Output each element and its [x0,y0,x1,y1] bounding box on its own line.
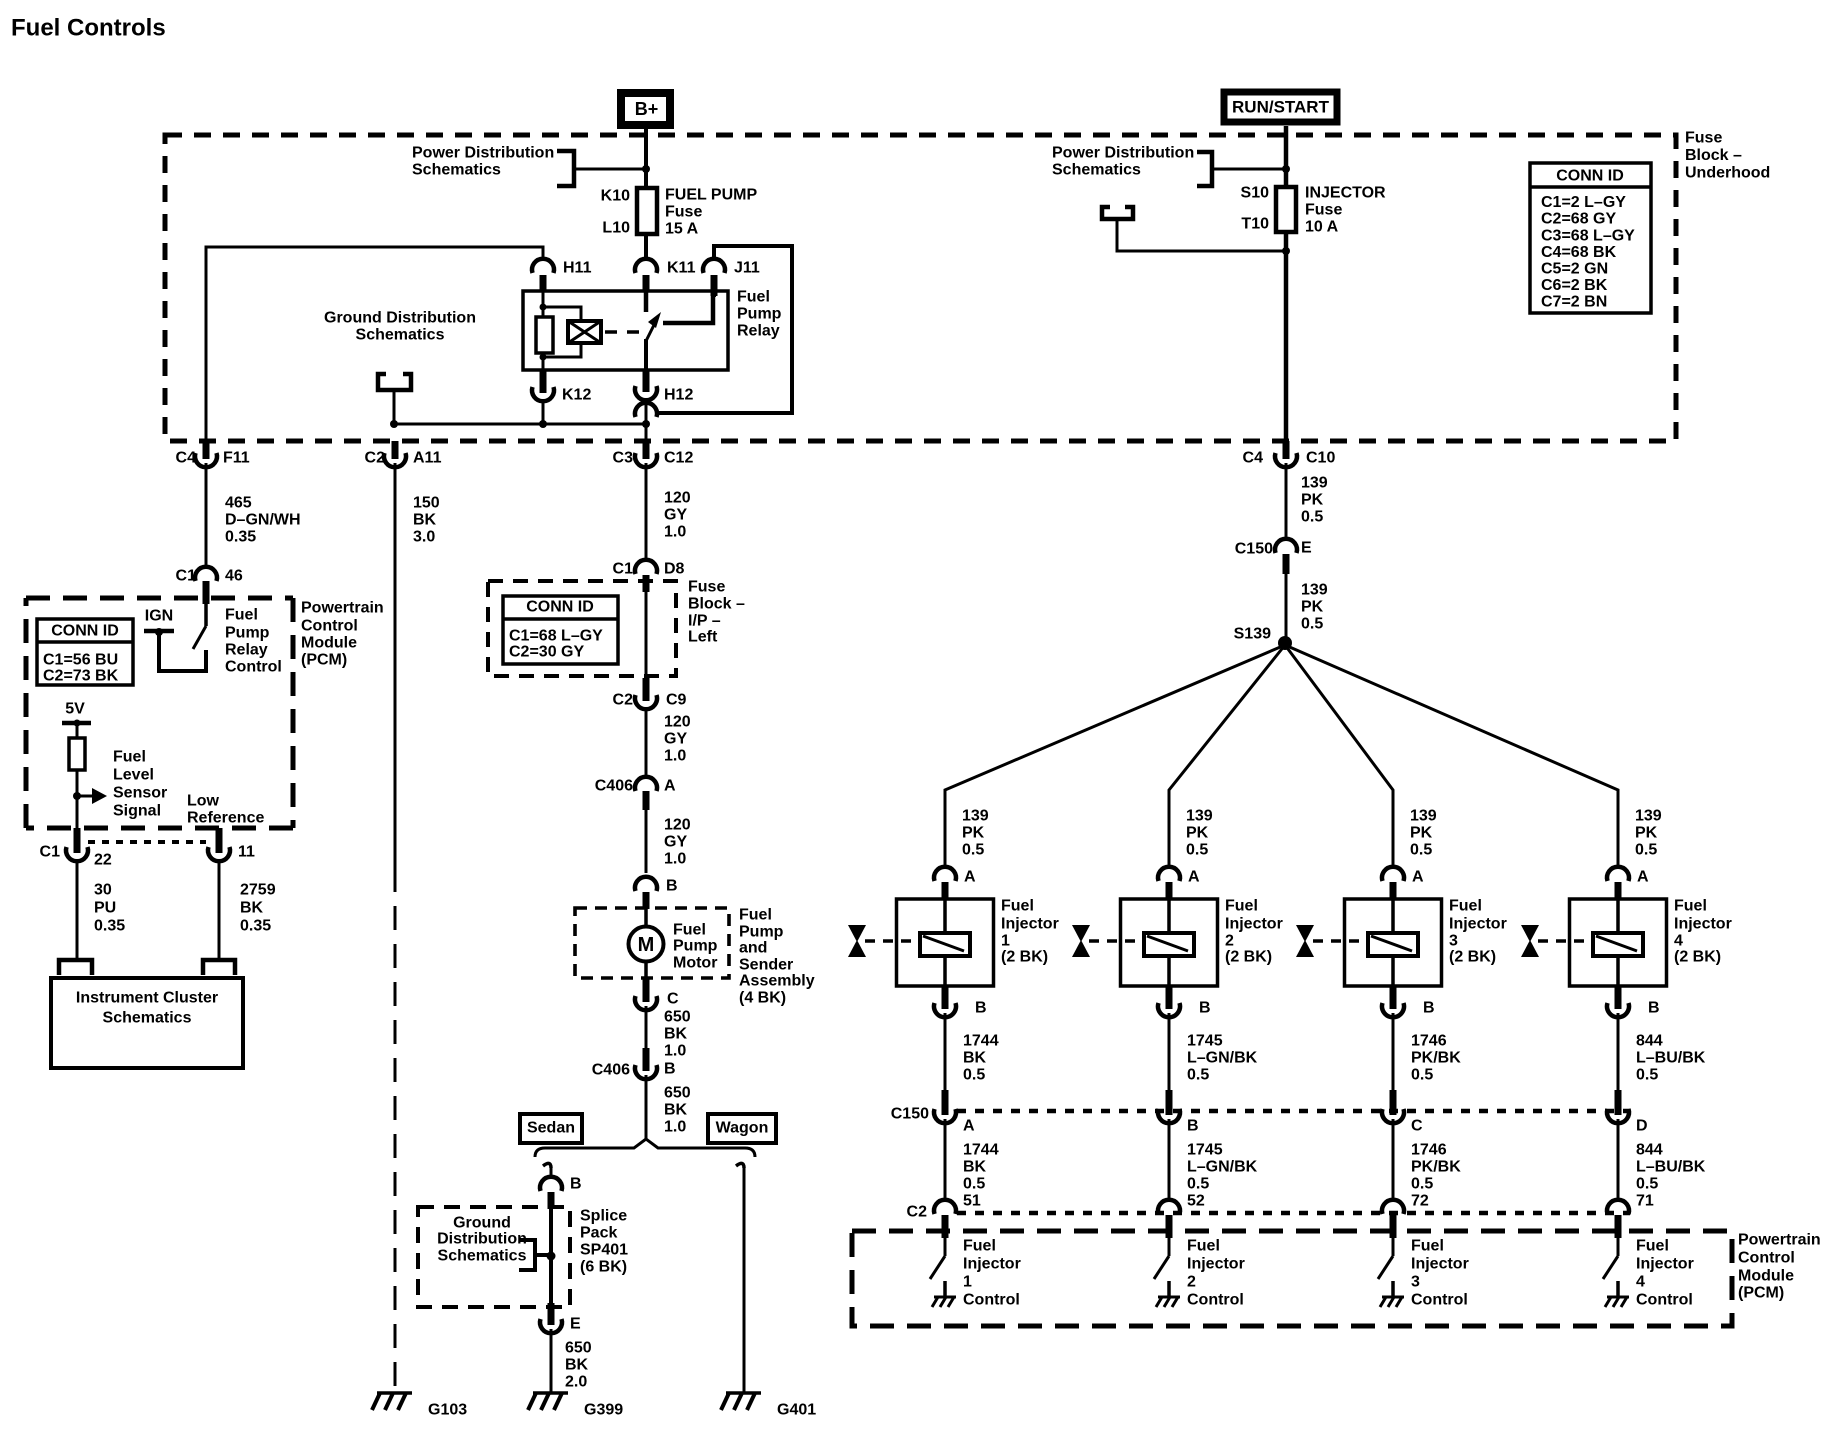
svg-text:Fuel: Fuel [1187,1238,1220,1255]
svg-text:Pump: Pump [739,924,784,941]
svg-text:Pump: Pump [737,306,782,323]
svg-text:Relay: Relay [225,642,268,659]
svg-text:(4 BK): (4 BK) [739,990,786,1007]
svg-text:C2: C2 [365,450,386,467]
model split brace [535,1139,755,1157]
wire C150 A to C2 51 [944,1119,947,1200]
svg-text:F11: F11 [223,450,250,467]
dotted connector line C2 [957,1211,1630,1216]
connector H12 [643,370,650,392]
wire D8 to C9 [645,592,648,678]
svg-text:Fuel: Fuel [1411,1238,1444,1255]
svg-text:and: and [739,940,767,957]
svg-text:Injector: Injector [1449,916,1507,933]
svg-text:B: B [1199,1000,1211,1017]
svg-text:844: 844 [1636,1033,1663,1050]
svg-text:Fuel: Fuel [1674,898,1707,915]
wire coil to K12 [542,353,545,372]
svg-text:Splice: Splice [580,1208,627,1225]
svg-text:Control: Control [1411,1292,1468,1309]
svg-text:Schematics: Schematics [412,162,501,179]
svg-text:Block –: Block – [1685,147,1742,164]
CONN ID table (Fuse Block - Underhood) [1530,163,1651,313]
connector C2 pin 71 [1607,1200,1629,1214]
wire wagon branch to G401 [743,1166,746,1392]
svg-text:Control: Control [963,1292,1020,1309]
svg-text:1.0: 1.0 [664,1043,686,1060]
wire curl wagon branch [736,1163,744,1168]
wire coil parallel branch bottom [543,343,581,357]
ground G401 [726,1391,761,1395]
svg-text:Fuel: Fuel [1225,898,1258,915]
injector 1 driver switch (PCM) [944,1238,947,1256]
svg-text:G103: G103 [428,1402,467,1419]
svg-text:Sender: Sender [739,957,793,974]
svg-text:46: 46 [225,568,243,585]
connector C2 pin 51 [934,1200,956,1214]
svg-text:Sedan: Sedan [527,1120,575,1137]
connector C2/C9 [643,678,650,701]
svg-text:465: 465 [225,495,252,512]
wire E to splice S139 [1285,574,1288,640]
svg-text:Pack: Pack [580,1225,617,1242]
wire splice SP401 [549,1209,553,1303]
svg-text:C1: C1 [40,844,61,861]
svg-text:M: M [638,934,655,956]
svg-text:30: 30 [94,882,112,899]
relay coil resistor [536,317,553,353]
connector C150 pin A [942,1090,949,1115]
svg-text:GY: GY [664,834,687,851]
svg-text:PU: PU [94,900,116,917]
svg-text:Assembly: Assembly [739,973,815,990]
wire A11 down (hidden run, dashed) [394,868,397,1392]
svg-text:1745: 1745 [1187,1142,1223,1159]
svg-text:Relay: Relay [737,323,780,340]
dashed inlet link injector 2 [1089,939,1144,943]
wire IGN to switch contact [159,633,206,671]
svg-text:Instrument Cluster: Instrument Cluster [76,990,218,1007]
svg-text:C7=2 BN: C7=2 BN [1541,294,1607,311]
tag box Wagon [708,1114,776,1143]
injector 2 driver switch (PCM) [1168,1238,1171,1256]
svg-text:PK/BK: PK/BK [1411,1159,1461,1176]
wire C to C406/B [645,1006,648,1048]
fuel injector 2 box [1121,899,1218,986]
svg-text:K12: K12 [562,387,591,404]
svg-text:B: B [570,1176,582,1193]
svg-text:Powertrain: Powertrain [1738,1232,1821,1249]
connector B (sedan splice) [540,1177,562,1191]
dotted connector line C150 [957,1109,1630,1114]
dashed box Fuse Block - Underhood [165,135,1676,441]
arrow Fuel Level Sensor Signal [77,795,93,798]
connector C4/F11 [203,441,210,459]
svg-text:51: 51 [963,1193,981,1210]
svg-text:0.5: 0.5 [1410,842,1432,859]
svg-text:4: 4 [1636,1274,1645,1291]
svg-text:L–GN/BK: L–GN/BK [1187,1050,1258,1067]
svg-text:T10: T10 [1241,216,1269,233]
svg-text:2: 2 [1187,1274,1196,1291]
svg-text:Schematics: Schematics [356,327,445,344]
svg-text:Left: Left [688,629,718,646]
wire motor to C [644,961,648,978]
svg-text:0.5: 0.5 [1187,1176,1209,1193]
wire C406/A to pump B [645,810,648,873]
svg-text:PK/BK: PK/BK [1411,1050,1461,1067]
wire C10 to C150/E [1285,463,1288,538]
svg-text:C6=2 BK: C6=2 BK [1541,277,1608,294]
svg-text:Pump: Pump [673,938,718,955]
fuel injector 1 valve symbol [848,925,866,942]
svg-text:Module: Module [301,635,357,652]
connector C1/D8 [635,560,657,574]
wire injector fuse to C10 [1284,232,1289,441]
svg-text:Reference: Reference [187,810,264,827]
connector C150 pin B [1166,1090,1173,1115]
svg-text:PK: PK [962,825,985,842]
svg-text:A: A [963,1118,975,1135]
svg-text:1746: 1746 [1411,1033,1447,1050]
wire bracket to B+ node [574,168,646,171]
svg-text:0.35: 0.35 [240,918,271,935]
svg-text:72: 72 [1411,1193,1429,1210]
relay coil symbol [568,321,601,343]
svg-text:Injector: Injector [1411,1256,1469,1273]
svg-text:120: 120 [664,490,691,507]
svg-text:Injector: Injector [1225,916,1283,933]
svg-text:PK: PK [1301,492,1324,509]
connector A (injector 4) [1607,867,1629,881]
svg-text:SP401: SP401 [580,1242,628,1259]
CONN ID table (Fuse Block I/P) [503,596,618,664]
connector C1 pin 22 [74,828,81,853]
svg-text:150: 150 [413,495,440,512]
wire pin 11 to instrument cluster [218,861,221,958]
wire relay H11 feed to F11 [206,247,543,457]
svg-text:139: 139 [1635,808,1662,825]
svg-text:G401: G401 [777,1402,816,1419]
svg-text:B+: B+ [635,99,659,119]
bracket ground distribution to splice [519,1240,535,1270]
svg-text:Fuel Controls: Fuel Controls [11,15,166,42]
wire ground distribution to node [393,390,396,424]
svg-text:D8: D8 [664,561,685,578]
wire E to G399 [550,1329,553,1392]
svg-text:2.0: 2.0 [565,1374,587,1391]
power symbol RUN/START [1224,92,1337,122]
svg-text:1744: 1744 [963,1142,999,1159]
svg-text:Fuel: Fuel [225,607,258,624]
driver ground (injector 2) [1167,1281,1171,1297]
svg-text:Ground: Ground [453,1215,511,1232]
svg-text:0.5: 0.5 [1636,1067,1658,1084]
connector K12 [540,370,547,393]
wire A11 down (solid) [394,463,397,868]
svg-text:S10: S10 [1241,185,1270,202]
terminal at instrument cluster (22) [59,960,92,975]
connector C4/C10 [1283,441,1290,459]
connector C406/A [635,777,657,791]
connector A (injector 2) [1158,867,1180,881]
dashed inlet link injector 1 [865,939,920,943]
wire injector 4 B to C150 [1617,1013,1620,1090]
svg-text:B: B [666,878,678,895]
svg-text:Control: Control [1187,1292,1244,1309]
svg-text:0.5: 0.5 [1411,1176,1433,1193]
svg-text:C2: C2 [613,692,634,709]
svg-text:IGN: IGN [145,608,173,625]
svg-text:0.5: 0.5 [1636,1176,1658,1193]
connector C2 pin 72 [1382,1200,1404,1214]
svg-text:Motor: Motor [673,955,717,972]
connector A (injector 3) [1382,867,1404,881]
wire coil parallel branch top [543,307,581,321]
svg-text:BK: BK [664,1026,688,1043]
svg-text:Schematics: Schematics [1052,162,1141,179]
svg-text:1: 1 [1001,933,1010,950]
svg-text:S139: S139 [1234,626,1271,643]
svg-text:139: 139 [1186,808,1213,825]
junction dot coil top [540,304,547,311]
svg-text:1: 1 [963,1274,972,1291]
svg-text:10 A: 10 A [1305,219,1339,236]
injector 3 driver switch (PCM) [1392,1238,1395,1256]
svg-text:A: A [1412,869,1424,886]
svg-text:C406: C406 [592,1062,630,1079]
svg-text:GY: GY [664,731,687,748]
tag box Sedan [520,1114,582,1143]
power symbol B+ [621,93,670,125]
junction dot K12 branch [539,420,547,428]
svg-text:Injector: Injector [1001,916,1059,933]
svg-text:H12: H12 [664,387,693,404]
svg-text:(2 BK): (2 BK) [1225,949,1272,966]
svg-text:PK: PK [1186,825,1209,842]
svg-text:1.0: 1.0 [664,1119,686,1136]
driver ground (injector 4) [1616,1281,1620,1297]
svg-text:C1: C1 [613,561,634,578]
svg-text:C: C [667,991,679,1008]
bracket to Power Distribution Schematics (left) [557,151,574,186]
svg-text:0.5: 0.5 [1301,509,1323,526]
svg-text:CONN ID: CONN ID [526,599,594,616]
wire off-page connector to main [1117,221,1286,251]
connector C150 pin C [1390,1090,1397,1115]
svg-text:(2 BK): (2 BK) [1449,949,1496,966]
svg-text:A: A [964,869,976,886]
svg-text:Fuse: Fuse [1305,202,1342,219]
svg-text:(PCM): (PCM) [1738,1285,1784,1302]
svg-text:0.5: 0.5 [1635,842,1657,859]
fuel injector 3 box [1345,899,1442,986]
svg-text:1.0: 1.0 [664,748,686,765]
resistor fuel level sensor pull-up [69,738,85,770]
svg-text:0.35: 0.35 [225,529,256,546]
connector B (injector 4) [1615,986,1622,1009]
connector C2 pin 52 [1158,1200,1180,1214]
wire C150 D to C2 71 [1617,1119,1620,1200]
junction dot coil bottom [540,354,547,361]
svg-text:B: B [1187,1118,1199,1135]
svg-text:C4: C4 [176,450,197,467]
svg-text:650: 650 [664,1085,691,1102]
svg-text:C1=2 L–GY: C1=2 L–GY [1541,194,1626,211]
fuse INJECTOR Fuse 10 A [1276,187,1296,232]
svg-text:844: 844 [1636,1142,1663,1159]
injector 4 driver switch (PCM) [1617,1238,1620,1256]
svg-text:L10: L10 [602,220,630,237]
svg-text:Fuel: Fuel [1001,898,1034,915]
connector C3/C12 [643,441,650,459]
svg-text:C9: C9 [666,692,687,709]
wire fuse L10 to relay K11 [644,234,648,260]
svg-text:K10: K10 [601,188,630,205]
dashed box Powertrain Control Module PCM (left) [26,596,293,601]
connector B (injector 1) [942,986,949,1009]
connector C150 pin D [1615,1090,1622,1115]
svg-text:5V: 5V [65,701,85,718]
svg-text:Fuel: Fuel [1636,1238,1669,1255]
svg-text:2759: 2759 [240,882,276,899]
wire injector 2 B to C150 [1168,1013,1171,1090]
junction dot at RUN/START feed [1282,165,1290,173]
relay control switch blade (PCM driver) [204,604,208,626]
svg-text:120: 120 [664,714,691,731]
connector B (injector 2) [1166,986,1173,1009]
svg-text:A: A [1637,869,1649,886]
wire curl sedan branch [543,1163,551,1168]
svg-text:C406: C406 [595,778,633,795]
connector K11 [635,259,657,273]
dashed inlet link injector 3 [1313,939,1368,943]
fuel pump motor M [629,927,664,962]
svg-text:A: A [664,778,676,795]
svg-text:Ground Distribution: Ground Distribution [324,310,476,327]
svg-text:C1=68 L–GY: C1=68 L–GY [509,628,603,645]
svg-text:RUN/START: RUN/START [1232,98,1330,117]
connector B (injector 3) [1390,986,1397,1009]
svg-text:139: 139 [1301,475,1328,492]
svg-text:Schematics: Schematics [103,1010,192,1027]
svg-text:139: 139 [1301,582,1328,599]
svg-text:B: B [1423,1000,1435,1017]
svg-text:D: D [1636,1118,1648,1135]
svg-text:22: 22 [94,852,112,869]
wire resistor to pin 22 [76,770,79,828]
svg-text:INJECTOR: INJECTOR [1305,185,1386,202]
svg-text:C3: C3 [613,450,634,467]
junction dot at B+ feed [642,165,650,173]
svg-text:B: B [1648,1000,1660,1017]
svg-text:Underhood: Underhood [1685,165,1770,182]
svg-text:1745: 1745 [1187,1033,1223,1050]
svg-text:0.35: 0.35 [94,918,125,935]
svg-text:PK: PK [1635,825,1658,842]
wire injector 1 B to C150 [944,1013,947,1090]
svg-text:3: 3 [1411,1274,1420,1291]
wire horizontal K12/H12 ground bus [394,423,646,426]
dotted connector line C1 (PCM) [88,840,206,844]
svg-text:0.5: 0.5 [963,1067,985,1084]
svg-text:Power Distribution: Power Distribution [1052,145,1194,162]
connector C406/B [643,1048,650,1071]
connector B (fuel pump) [635,877,657,891]
svg-text:71: 71 [1636,1193,1654,1210]
svg-text:Fuel: Fuel [113,749,146,766]
wire S139 to injector 3 [1285,645,1393,869]
svg-text:K11: K11 [667,260,696,277]
relay box [523,291,728,370]
svg-text:Wagon: Wagon [716,1120,769,1137]
connector E (splice out) [548,1303,555,1325]
off-page connector symbol (injector fuse feed) [1102,207,1133,219]
wire F11 to C1/46 [205,463,208,566]
svg-text:3.0: 3.0 [413,529,435,546]
svg-text:Pump: Pump [225,625,270,642]
ground G399 [533,1391,568,1395]
wire RUN/START down [1284,126,1289,188]
dashed box Fuel Pump and Sender Assembly [575,908,729,978]
svg-text:139: 139 [1410,808,1437,825]
wire C9 to C406/A [645,709,648,775]
svg-text:A: A [1188,869,1200,886]
svg-text:L–GN/BK: L–GN/BK [1187,1159,1258,1176]
svg-text:C10: C10 [1306,450,1335,467]
svg-text:C2=30 GY: C2=30 GY [509,644,584,661]
svg-text:1744: 1744 [963,1033,999,1050]
svg-text:Control: Control [1738,1250,1795,1267]
svg-text:C1=56 BU: C1=56 BU [43,652,118,669]
svg-text:C5=2 GN: C5=2 GN [1541,261,1608,278]
svg-text:1746: 1746 [1411,1142,1447,1159]
wire switch to H12 [644,339,648,372]
svg-text:Power Distribution: Power Distribution [412,145,554,162]
wire K12 to ground bus [542,401,545,424]
svg-text:D–GN/WH: D–GN/WH [225,512,301,529]
svg-text:A11: A11 [413,450,442,467]
svg-text:(2 BK): (2 BK) [1674,949,1721,966]
svg-text:0.5: 0.5 [1411,1067,1433,1084]
svg-text:650: 650 [565,1340,592,1357]
box Instrument Cluster Schematics [51,978,243,1068]
connector C150/E [1275,539,1297,553]
svg-text:Fuse: Fuse [688,579,725,596]
svg-text:Distribution: Distribution [437,1231,527,1248]
svg-text:0.5: 0.5 [962,842,984,859]
svg-text:Control: Control [301,618,358,635]
svg-text:Sensor: Sensor [113,785,167,802]
svg-text:B: B [664,1061,676,1078]
wire B to motor [644,909,648,927]
svg-text:C: C [1411,1118,1423,1135]
wire H12 to C12 [645,399,648,441]
svg-text:J11: J11 [734,260,760,277]
dashed box Ground Distribution Schematics (splice) [418,1207,570,1307]
svg-text:139: 139 [962,808,989,825]
fuel injector 2 coil [1144,933,1194,956]
svg-text:(6 BK): (6 BK) [580,1259,627,1276]
connector C (pump assembly) [643,978,650,1002]
svg-text:PK: PK [1301,599,1324,616]
fuel injector 1 box [897,899,994,986]
svg-text:Powertrain: Powertrain [301,600,384,617]
svg-text:BK: BK [565,1357,589,1374]
svg-text:C12: C12 [664,450,693,467]
svg-text:11: 11 [238,844,255,861]
wire S139 to injector 1 [945,645,1285,869]
